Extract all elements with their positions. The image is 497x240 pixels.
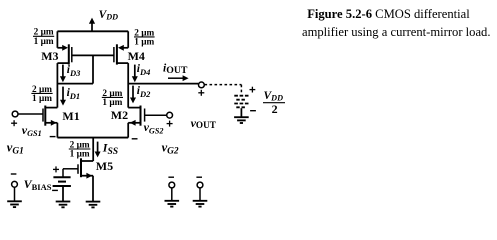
- svg-text:1 μm: 1 μm: [32, 94, 52, 104]
- svg-text:iD1: iD1: [67, 87, 81, 101]
- svg-text:amplifier using a current-mirr: amplifier using a current-mirror load.: [302, 25, 491, 39]
- svg-text:iD2: iD2: [137, 85, 151, 99]
- svg-text:M2: M2: [111, 108, 128, 122]
- svg-text:1 μm: 1 μm: [102, 98, 122, 108]
- svg-text:vGS2: vGS2: [144, 120, 164, 135]
- svg-text:2: 2: [272, 102, 278, 116]
- svg-text:M4: M4: [128, 49, 145, 63]
- svg-text:VBIAS: VBIAS: [24, 177, 52, 192]
- svg-text:1 μm: 1 μm: [70, 150, 90, 160]
- svg-text:iOUT: iOUT: [163, 62, 188, 76]
- svg-text:1 μm: 1 μm: [134, 38, 154, 48]
- svg-text:1 μm: 1 μm: [34, 37, 54, 47]
- svg-text:M1: M1: [62, 109, 79, 123]
- svg-text:Figure 5.2-6 CMOS differentia: Figure 5.2-6 CMOS differential: [307, 7, 470, 21]
- svg-text:iD4: iD4: [137, 63, 151, 77]
- svg-text:vG1: vG1: [7, 140, 24, 156]
- svg-text:M5: M5: [96, 159, 113, 173]
- svg-text:vOUT: vOUT: [191, 116, 216, 130]
- svg-text:iD3: iD3: [67, 64, 81, 78]
- svg-text:vGS1: vGS1: [22, 123, 42, 138]
- svg-text:M3: M3: [41, 49, 58, 63]
- svg-text:VDD: VDD: [264, 90, 284, 102]
- svg-text:VDD: VDD: [99, 9, 119, 21]
- svg-text:ISS: ISS: [102, 140, 118, 156]
- svg-text:vG2: vG2: [162, 140, 179, 156]
